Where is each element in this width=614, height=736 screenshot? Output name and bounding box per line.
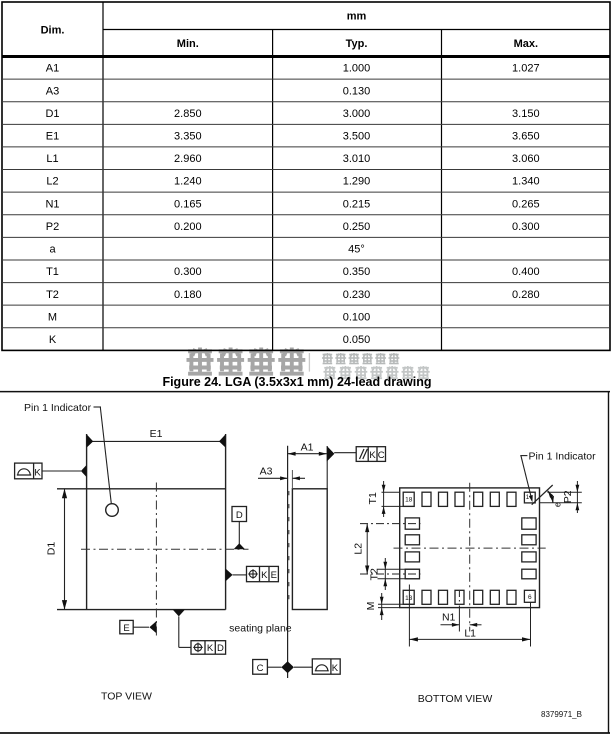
svg-text:1.027: 1.027 [512, 63, 540, 75]
table row T2 [46, 289, 539, 301]
pad bottom row 6 [490, 590, 499, 604]
svg-text:0.300: 0.300 [512, 221, 540, 233]
svg-text:E1: E1 [150, 428, 163, 440]
pad left column 2 [405, 535, 419, 545]
svg-text:D: D [236, 510, 243, 521]
svg-text:8379971_B: 8379971_B [541, 710, 582, 719]
pin 1 indicator label top view [24, 402, 111, 504]
svg-text:C: C [257, 663, 264, 674]
svg-text:D1: D1 [46, 542, 58, 556]
pad bottom row 2 [422, 590, 431, 604]
pin 1 indicator circle [106, 504, 119, 517]
svg-text:0.250: 0.250 [343, 221, 371, 233]
svg-text:K: K [369, 450, 376, 461]
svg-text:P2: P2 [562, 490, 574, 503]
datum box K profile top left [15, 463, 87, 479]
svg-text:0.230: 0.230 [343, 289, 371, 301]
angle dimension e [548, 491, 563, 507]
svg-text:D: D [217, 643, 224, 654]
pad left column 3 [405, 552, 419, 562]
dimension L1 [409, 585, 530, 647]
svg-text:C: C [378, 450, 385, 461]
pin 1 indicator label bottom view [520, 451, 596, 503]
svg-text:L1: L1 [464, 627, 476, 639]
dimension M [365, 593, 414, 620]
svg-text:N1: N1 [45, 198, 59, 210]
watermark small text line 1 [322, 353, 399, 364]
pad right column 1 [522, 518, 536, 529]
svg-text:L1: L1 [46, 153, 58, 165]
bottom view horizontal centerline [394, 547, 546, 549]
pad right column 3 [522, 552, 536, 562]
svg-text:3.000: 3.000 [343, 108, 371, 120]
side view seating plane line [287, 446, 289, 678]
pad left column 4 [405, 569, 419, 579]
watermark small text line 2 [324, 366, 430, 379]
svg-text:K: K [207, 643, 214, 654]
top view package outline [57, 434, 226, 610]
table row L1 [46, 153, 539, 165]
table row K [49, 334, 370, 346]
pad 13 corner [403, 590, 414, 604]
table row a [49, 244, 364, 256]
pad bottom row 7 [507, 590, 516, 604]
table row P2 [46, 221, 540, 233]
svg-text:Max.: Max. [514, 38, 538, 50]
svg-text:A3: A3 [260, 465, 273, 477]
svg-text:D1: D1 [45, 108, 59, 120]
svg-text:Pin 1 Indicator: Pin 1 Indicator [529, 451, 597, 463]
table row A1 [46, 63, 540, 75]
svg-text:M: M [365, 602, 377, 611]
svg-text:0.165: 0.165 [174, 198, 202, 210]
table row N1 [45, 198, 539, 210]
datum box C and seating plane symbol [253, 659, 340, 674]
svg-text:TOP VIEW: TOP VIEW [101, 690, 152, 702]
svg-text:1.240: 1.240 [174, 176, 202, 188]
bottom view outline [400, 488, 540, 608]
feature control frame position K E [226, 566, 279, 581]
dimension T1 [367, 481, 414, 517]
pad 6 corner [524, 590, 535, 602]
watermark logo text [187, 348, 306, 375]
svg-text:3.500: 3.500 [343, 131, 371, 143]
bottom view vertical centerline [469, 483, 471, 632]
table row M [48, 311, 370, 323]
svg-text:18: 18 [405, 497, 413, 504]
svg-text:0.300: 0.300 [174, 266, 202, 278]
pad left column 1 [405, 518, 419, 529]
svg-text:0.200: 0.200 [174, 221, 202, 233]
svg-text:0.280: 0.280 [512, 289, 540, 301]
feature control frame position K D [173, 610, 226, 655]
side view body top extension [326, 446, 328, 489]
svg-text:0.265: 0.265 [512, 198, 540, 210]
svg-text:0.350: 0.350 [343, 266, 371, 278]
table row L2 [46, 176, 539, 188]
dimension N1 [441, 591, 482, 632]
svg-text:A1: A1 [46, 63, 59, 75]
svg-text:3.350: 3.350 [174, 131, 202, 143]
svg-text:T1: T1 [46, 266, 59, 278]
svg-text:A1: A1 [301, 442, 314, 454]
svg-text:K: K [34, 467, 41, 478]
figure frame [0, 392, 610, 733]
top view horizontal centerline [81, 548, 249, 550]
pad top row 2 [422, 492, 431, 506]
dimension L2 [352, 524, 420, 574]
svg-text:a: a [49, 244, 56, 256]
svg-text:N1: N1 [442, 612, 456, 624]
svg-text:e: e [553, 502, 563, 507]
svg-text:E: E [123, 623, 129, 634]
side view pads dashed line [288, 491, 290, 607]
svg-text:3.060: 3.060 [512, 153, 540, 165]
svg-text:3.010: 3.010 [343, 153, 371, 165]
svg-text:0.215: 0.215 [343, 198, 371, 210]
svg-text:0.180: 0.180 [174, 289, 202, 301]
svg-text:Pin 1 Indicator: Pin 1 Indicator [24, 402, 92, 414]
svg-text:3.150: 3.150 [512, 108, 540, 120]
pad bottom row 4 [455, 590, 464, 604]
pad top row 6 [490, 492, 499, 506]
svg-text:Figure 24. LGA (3.5x3x1 mm) 24: Figure 24. LGA (3.5x3x1 mm) 24-lead draw… [162, 375, 431, 389]
pin 1 chamfer diagonal [532, 485, 553, 505]
dimension T2 [368, 558, 419, 590]
pad right column 4 [522, 569, 536, 579]
table row E1 [46, 131, 540, 143]
svg-text:A3: A3 [46, 85, 59, 97]
dimension D1 [46, 489, 68, 610]
svg-text:2.850: 2.850 [174, 108, 202, 120]
pad top row 3 [439, 492, 448, 506]
watermark divider [308, 353, 310, 372]
pad bottom row 5 [474, 590, 483, 604]
svg-text:6: 6 [528, 594, 532, 601]
svg-text:T2: T2 [46, 289, 59, 301]
pad bottom row 3 [439, 590, 448, 604]
svg-text:0.400: 0.400 [512, 266, 540, 278]
svg-text:BOTTOM VIEW: BOTTOM VIEW [418, 693, 493, 705]
svg-text:K: K [49, 334, 57, 346]
svg-text:L2: L2 [352, 543, 364, 555]
svg-text:K: K [332, 663, 339, 674]
table row T1 [46, 266, 539, 278]
svg-text:Min.: Min. [177, 38, 199, 50]
svg-text:0.100: 0.100 [343, 311, 371, 323]
pad right column 2 [522, 535, 536, 545]
side view body [292, 489, 327, 610]
pad 18 corner [403, 492, 414, 506]
datum box E [120, 620, 157, 634]
dimension A1 [288, 442, 327, 456]
svg-text:L2: L2 [46, 176, 58, 188]
table row D1 [45, 108, 539, 120]
svg-text:T2: T2 [368, 568, 380, 580]
svg-text:M: M [48, 311, 57, 323]
table row A3 [46, 85, 371, 97]
svg-text:Dim.: Dim. [41, 24, 65, 36]
datum box D [232, 507, 247, 550]
svg-text:E: E [271, 570, 277, 581]
dimension A3 [258, 465, 305, 480]
svg-text:K: K [261, 570, 268, 581]
svg-text:E1: E1 [46, 131, 59, 143]
pad top row 7 [507, 492, 516, 506]
svg-text:0.130: 0.130 [343, 85, 371, 97]
dimension E1 [87, 428, 226, 448]
svg-text:T1: T1 [367, 492, 379, 504]
svg-text:1.340: 1.340 [512, 176, 540, 188]
svg-text:1.290: 1.290 [343, 176, 371, 188]
pad top row 4 [455, 492, 464, 506]
svg-text:mm: mm [347, 11, 367, 23]
svg-text:seating plane: seating plane [229, 622, 292, 634]
pad 1 corner [524, 492, 535, 503]
svg-text:3.650: 3.650 [512, 131, 540, 143]
svg-text:Typ.: Typ. [346, 38, 368, 50]
svg-text:45°: 45° [348, 244, 365, 256]
top view vertical centerline [155, 483, 157, 637]
table frame [2, 2, 610, 350]
dimension P2 [540, 481, 582, 513]
parallelism frame K C [327, 446, 386, 462]
svg-text:1.000: 1.000 [343, 63, 371, 75]
svg-text:0.050: 0.050 [343, 334, 371, 346]
svg-text:2.960: 2.960 [174, 153, 202, 165]
svg-text:1: 1 [526, 494, 530, 501]
pad top row 5 [474, 492, 483, 506]
table header text [41, 11, 538, 50]
svg-text:P2: P2 [46, 221, 59, 233]
